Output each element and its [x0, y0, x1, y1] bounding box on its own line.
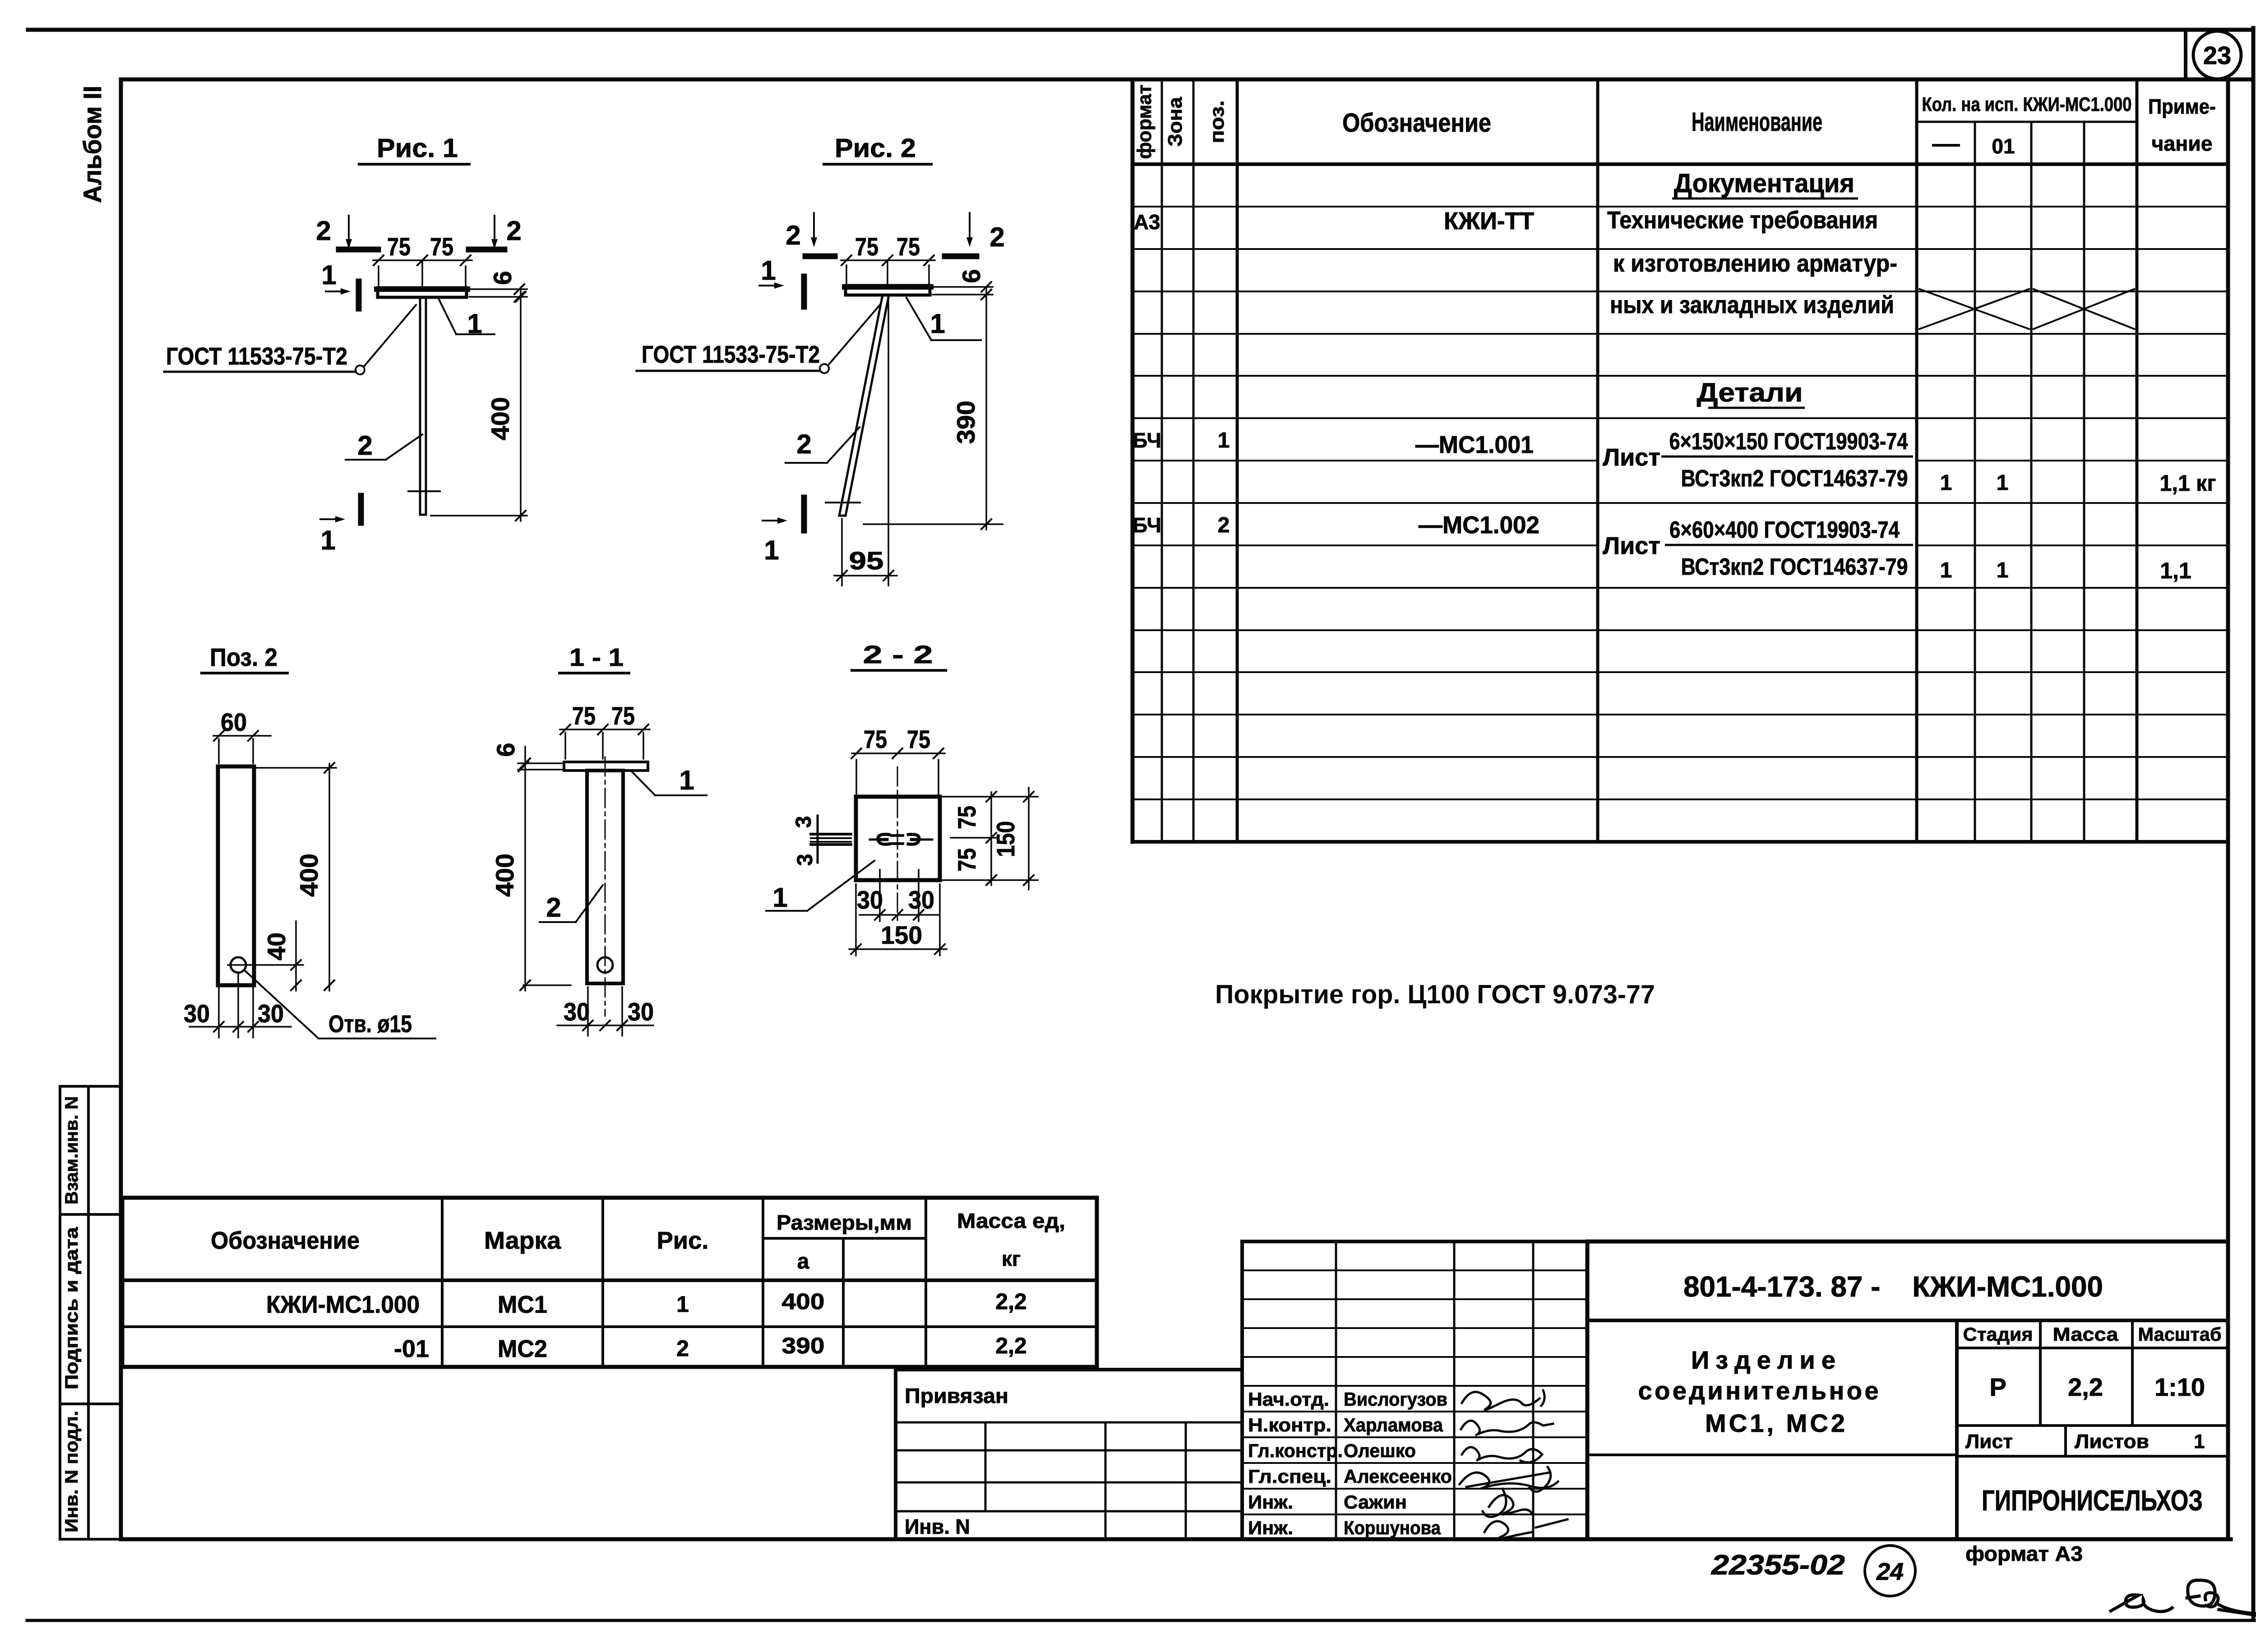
svg-text:1: 1 — [1940, 558, 1952, 582]
svg-text:150: 150 — [881, 921, 922, 949]
left stamp boxes — [60, 1085, 121, 1088]
corner scribble — [2111, 1595, 2172, 1611]
sheet number box top right — [2184, 30, 2187, 79]
signature table grid — [1335, 1241, 1337, 1539]
TITLE BLOCK — [1587, 1241, 2228, 1539]
POS.2 DETAIL — [184, 643, 435, 1038]
svg-text:А3: А3 — [1134, 210, 1160, 234]
svg-text:ных и закладных изделий: ных и закладных изделий — [1610, 291, 1894, 318]
svg-text:30: 30 — [184, 999, 210, 1028]
pos2 hole label — [244, 970, 319, 1038]
sheet number circle 23 — [2193, 31, 2241, 79]
svg-text:—МС1.001: —МС1.001 — [1415, 431, 1534, 458]
svg-text:3: 3 — [792, 816, 816, 828]
svg-text:400: 400 — [490, 854, 519, 897]
fig1 stem part2 — [419, 297, 421, 515]
svg-text:Подпись и дата: Подпись и дата — [62, 1227, 82, 1389]
fig2 dim 75 75 — [846, 265, 847, 289]
fig1 section mark 1 lower — [358, 496, 364, 523]
title block grid — [1587, 1319, 2228, 1322]
svg-text:ГОСТ 11533-75-Т2: ГОСТ 11533-75-Т2 — [166, 343, 347, 370]
svg-text:формат: формат — [1133, 85, 1156, 159]
svg-text:Поз. 2: Поз. 2 — [210, 643, 277, 671]
svg-text:-01: -01 — [394, 1335, 429, 1362]
svg-text:КЖИ-МС1.000: КЖИ-МС1.000 — [266, 1291, 420, 1318]
svg-text:Размеры,мм: Размеры,мм — [777, 1211, 912, 1234]
svg-text:кг: кг — [1002, 1247, 1021, 1270]
svg-text:30: 30 — [908, 886, 934, 914]
svg-text:Наименование: Наименование — [1692, 107, 1822, 137]
sec11 dim 75 75 — [564, 733, 566, 759]
svg-text:2: 2 — [546, 892, 561, 923]
svg-text:30: 30 — [628, 997, 654, 1026]
svg-text:390: 390 — [782, 1333, 825, 1358]
svg-text:чание: чание — [2152, 132, 2213, 155]
svg-text:Обозначение: Обозначение — [1342, 108, 1491, 138]
svg-text:3: 3 — [793, 854, 817, 866]
svg-text:Масса ед,: Масса ед, — [957, 1209, 1065, 1232]
svg-text:Покрытие гор. Ц100 ГОСТ 9.0: Покрытие гор. Ц100 ГОСТ 9.073-77 — [1215, 980, 1655, 1009]
sec11 center line — [605, 757, 606, 1016]
FIGURE 1 — [164, 134, 527, 555]
spec table row lines — [1133, 162, 2228, 166]
svg-text:Инж.: Инж. — [1248, 1517, 1293, 1538]
signature scribbles — [1462, 1390, 1544, 1410]
svg-text:30: 30 — [564, 997, 590, 1026]
svg-text:МС2: МС2 — [498, 1335, 547, 1362]
svg-text:75: 75 — [611, 701, 635, 730]
svg-text:23: 23 — [2203, 41, 2231, 69]
svg-text:Детали: Детали — [1697, 378, 1803, 407]
svg-text:1: 1 — [930, 309, 945, 339]
svg-text:95: 95 — [849, 546, 884, 575]
svg-text:Листов: Листов — [2075, 1431, 2149, 1453]
svg-text:6: 6 — [491, 743, 520, 757]
fig1 dim 400 — [520, 289, 522, 521]
crossed cells — [1919, 289, 2030, 329]
svg-text:150: 150 — [991, 821, 1020, 857]
svg-text:2: 2 — [1218, 513, 1230, 537]
svg-text:Масштаб: Масштаб — [2138, 1324, 2222, 1345]
svg-text:75: 75 — [855, 232, 878, 261]
pos2 hole — [231, 957, 246, 973]
inner right vertical line — [2226, 79, 2230, 1539]
PRIVYAZAN STAMP — [896, 1370, 1242, 1539]
svg-text:Н.контр.: Н.контр. — [1248, 1414, 1331, 1435]
svg-text:1: 1 — [761, 255, 776, 286]
svg-text:75: 75 — [952, 806, 981, 829]
svg-text:Отв. ø15: Отв. ø15 — [328, 1011, 412, 1038]
svg-text:БЧ: БЧ — [1133, 513, 1161, 537]
svg-text:2,2: 2,2 — [2068, 1373, 2103, 1401]
svg-text:2,2: 2,2 — [995, 1289, 1027, 1314]
svg-text:75: 75 — [897, 232, 920, 261]
svg-text:формат А3: формат А3 — [1965, 1542, 2083, 1565]
SPEC TABLE — [1133, 79, 2228, 842]
svg-text:ГИПРОНИСЕЛЬХОЗ: ГИПРОНИСЕЛЬХОЗ — [1982, 1484, 2203, 1517]
fig2 inclined stem part2 — [839, 295, 883, 516]
svg-text:Марка: Марка — [484, 1227, 561, 1254]
svg-text:Инв. N: Инв. N — [905, 1515, 970, 1538]
pos2 dim 400 — [256, 767, 336, 769]
svg-text:Кол. на исп. КЖИ-МС1.000: Кол. на исп. КЖИ-МС1.000 — [1922, 93, 2132, 115]
svg-text:2,2: 2,2 — [995, 1333, 1027, 1358]
top border line — [28, 28, 2252, 32]
svg-text:2: 2 — [357, 430, 372, 461]
svg-text:1: 1 — [1940, 471, 1952, 495]
BOTTOM LEFT TABLE — [122, 1198, 1097, 1367]
svg-text:30: 30 — [857, 886, 883, 914]
fig2 dim 390 — [985, 287, 987, 530]
svg-text:2: 2 — [786, 220, 800, 250]
privyazan stamp grid — [896, 1421, 1242, 1424]
fig2 dim 95 — [841, 519, 843, 586]
svg-text:Привязан: Привязан — [905, 1384, 1008, 1407]
svg-text:Зона: Зона — [1164, 97, 1186, 147]
svg-text:Олешко: Олешко — [1344, 1440, 1416, 1461]
svg-text:1: 1 — [1997, 558, 2009, 582]
svg-text:1,1 кг: 1,1 кг — [2160, 471, 2216, 496]
svg-text:Лист: Лист — [1965, 1431, 2013, 1453]
svg-text:60: 60 — [221, 708, 247, 736]
sec11 dim 400 — [524, 747, 526, 991]
svg-text:1: 1 — [2194, 1431, 2205, 1453]
svg-text:1:10: 1:10 — [2154, 1373, 2205, 1401]
sec11 dim 6 — [518, 762, 562, 764]
svg-text:75: 75 — [907, 725, 930, 753]
svg-text:Взам.инв. N: Взам.инв. N — [62, 1096, 82, 1204]
svg-text:Вислогузов: Вислогузов — [1344, 1389, 1447, 1410]
svg-text:01: 01 — [1992, 134, 2015, 158]
svg-text:2: 2 — [506, 216, 521, 246]
svg-text:Алексеенко: Алексеенко — [1344, 1466, 1452, 1487]
title block frame — [1587, 1241, 2228, 1539]
svg-text:Гл.констр.: Гл.констр. — [1248, 1440, 1343, 1461]
svg-text:1: 1 — [676, 1292, 689, 1317]
svg-text:а: а — [797, 1250, 809, 1274]
parts table column lines — [441, 1198, 444, 1367]
svg-text:1,1: 1,1 — [2160, 558, 2191, 583]
SIGNATURE TABLE — [1242, 1241, 1587, 1539]
svg-text:390: 390 — [952, 401, 980, 444]
pos2 dim 40 — [228, 964, 303, 966]
svg-text:к изготовлению арматур-: к изготовлению арматур- — [1613, 250, 1897, 277]
spec header dash — [1932, 144, 1960, 147]
sec22 dim 150 bottom — [855, 884, 857, 955]
pos2 dim 60 — [218, 739, 220, 763]
svg-text:2: 2 — [796, 429, 811, 459]
SECTION 1-1 — [490, 643, 707, 1036]
sec22 dim 30 30 bottom — [879, 870, 881, 921]
fig2 dim 6 — [933, 286, 993, 288]
privyazan stamp frame — [896, 1370, 1242, 1539]
svg-text:соединительное: соединительное — [1638, 1376, 1879, 1405]
sec11 dim 30 30 — [587, 987, 589, 1036]
svg-text:801-4-173. 87 - КЖИ-МС1.000: 801-4-173. 87 - КЖИ-МС1.000 — [1683, 1270, 2103, 1303]
svg-text:1: 1 — [679, 765, 694, 795]
svg-text:Рис. 1: Рис. 1 — [377, 134, 458, 163]
svg-text:2: 2 — [989, 222, 1004, 252]
svg-text:1 - 1: 1 - 1 — [569, 643, 624, 671]
svg-text:поз.: поз. — [1206, 101, 1228, 143]
spec table vertical grid — [1131, 79, 1135, 842]
sec11 plate section — [564, 762, 648, 771]
svg-text:24: 24 — [1876, 1558, 1904, 1585]
svg-text:Обозначение: Обозначение — [211, 1227, 360, 1254]
page circle 24 — [1865, 1546, 1915, 1596]
svg-text:Приме-: Приме- — [2148, 95, 2216, 118]
sec22 weld seam lines — [811, 833, 851, 835]
svg-text:400: 400 — [782, 1289, 825, 1314]
spec table header split line — [1917, 121, 2137, 123]
svg-text:Коршунова: Коршунова — [1344, 1517, 1441, 1538]
BOTTOM MARGIN — [1711, 1542, 2256, 1617]
svg-text:ВСт3кп2 ГОСТ14637-79: ВСт3кп2 ГОСТ14637-79 — [1681, 554, 1908, 580]
svg-text:Р: Р — [1989, 1373, 2006, 1401]
svg-text:1: 1 — [1997, 471, 2009, 495]
svg-text:22355-02: 22355-02 — [1711, 1550, 1845, 1581]
parts table frame — [122, 1198, 1097, 1367]
svg-text:400: 400 — [486, 397, 514, 440]
svg-text:6: 6 — [488, 271, 517, 285]
svg-text:1: 1 — [1218, 429, 1230, 452]
SECTION 2-2 — [766, 640, 1038, 955]
svg-text:Нач.отд.: Нач.отд. — [1248, 1389, 1329, 1410]
fig1 stem tick — [408, 490, 440, 492]
svg-text:Альбом II: Альбом II — [78, 86, 106, 203]
fig1 dim 6 — [469, 288, 527, 290]
svg-text:КЖИ-ТТ: КЖИ-ТТ — [1444, 208, 1534, 235]
sec22 right dim 150 — [1028, 788, 1030, 890]
svg-text:Масса: Масса — [2053, 1324, 2119, 1345]
sec11 stem face — [587, 771, 623, 983]
sec11 hole — [597, 957, 613, 973]
FIGURE 2 — [637, 134, 1005, 586]
signature table frame — [1242, 1241, 1587, 1539]
fig2 section mark 1 lower — [801, 498, 807, 531]
fig2 plate part1 — [846, 286, 930, 295]
pos2 dim 30 30 — [218, 988, 220, 1038]
svg-text:2: 2 — [316, 216, 331, 246]
svg-text:—МС1.002: —МС1.002 — [1419, 512, 1539, 539]
svg-text:Лист: Лист — [1603, 532, 1660, 559]
svg-text:Харламова: Харламова — [1344, 1414, 1443, 1435]
svg-text:ВСт3кп2 ГОСТ14637-79: ВСт3кп2 ГОСТ14637-79 — [1681, 466, 1908, 492]
sec22 center vline — [897, 767, 898, 923]
svg-text:1: 1 — [772, 882, 787, 913]
svg-text:40: 40 — [262, 932, 291, 960]
fig1 dim 75 75 — [378, 266, 379, 291]
sec22 dim 75 75 top — [855, 760, 857, 794]
sec22 weld marks — [870, 839, 880, 841]
svg-text:Рис. 2: Рис. 2 — [835, 134, 916, 163]
sec22 right dims 75 75 — [943, 796, 1038, 798]
svg-text:МС1: МС1 — [498, 1291, 547, 1318]
sec22 plate square — [856, 797, 940, 880]
svg-text:75: 75 — [864, 725, 887, 753]
svg-text:1: 1 — [320, 525, 335, 555]
svg-text:Сажин: Сажин — [1344, 1491, 1407, 1513]
bottom margin line — [27, 1619, 2254, 1622]
svg-text:75: 75 — [572, 701, 596, 730]
svg-text:6×150×150 ГОСТ19903-74: 6×150×150 ГОСТ19903-74 — [1669, 429, 1908, 455]
svg-text:Рис.: Рис. — [657, 1227, 709, 1254]
svg-text:Инв. N подл.: Инв. N подл. — [62, 1411, 82, 1532]
svg-text:75: 75 — [430, 232, 453, 261]
svg-text:6: 6 — [957, 269, 985, 283]
svg-text:Лист: Лист — [1603, 444, 1660, 471]
fig1 plate part1 — [378, 288, 467, 297]
svg-text:Документация: Документация — [1674, 169, 1854, 198]
svg-text:75: 75 — [387, 232, 411, 261]
main frame — [121, 78, 2253, 82]
fig2 stem tick — [826, 502, 860, 503]
svg-text:400: 400 — [295, 854, 323, 897]
svg-text:БЧ: БЧ — [1133, 429, 1161, 452]
svg-text:Технические требования: Технические требования — [1607, 207, 1878, 234]
svg-text:ГОСТ 11533-75-Т2: ГОСТ 11533-75-Т2 — [642, 341, 820, 368]
svg-text:6×60×400 ГОСТ19903-74: 6×60×400 ГОСТ19903-74 — [1669, 517, 1900, 543]
svg-text:Инж.: Инж. — [1248, 1491, 1293, 1513]
svg-text:75: 75 — [952, 848, 981, 872]
sec22 weld leader vertical — [817, 816, 819, 863]
svg-text:1: 1 — [321, 260, 336, 290]
svg-text:Стадия: Стадия — [1963, 1324, 2033, 1345]
svg-text:1: 1 — [764, 535, 779, 565]
svg-text:Гл.спец.: Гл.спец. — [1248, 1466, 1331, 1487]
pos2 plate outline — [218, 766, 254, 985]
svg-text:2: 2 — [676, 1336, 689, 1361]
svg-text:2 - 2: 2 - 2 — [863, 640, 933, 669]
